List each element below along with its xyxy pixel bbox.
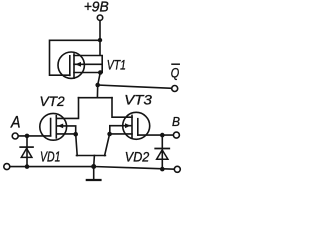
svg-text:+9В: +9В bbox=[84, 0, 109, 16]
svg-text:VT3: VT3 bbox=[124, 92, 152, 108]
svg-text:A: A bbox=[10, 113, 20, 131]
svg-text:VD2: VD2 bbox=[125, 149, 150, 165]
svg-text:VT1: VT1 bbox=[107, 57, 126, 72]
svg-text:VT2: VT2 bbox=[40, 93, 65, 109]
svg-text:B: B bbox=[172, 114, 180, 129]
svg-text:VD1: VD1 bbox=[40, 148, 61, 165]
svg-text:Q: Q bbox=[171, 65, 180, 80]
